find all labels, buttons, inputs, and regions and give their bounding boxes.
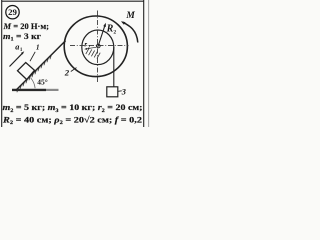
svg-text:a: a — [15, 42, 19, 51]
incline hatching — [17, 55, 52, 93]
rope to block 3 — [113, 47, 115, 87]
torque arc M — [123, 22, 138, 42]
svg-text:3: 3 — [121, 88, 126, 97]
svg-text:29: 29 — [8, 8, 17, 17]
radius arrow R2 — [98, 24, 105, 45]
acceleration arrow a1 — [10, 53, 24, 67]
svg-text:m2 = 5 кг; m3 = 10 кг; r2 = 20: m2 = 5 кг; m3 = 10 кг; r2 = 20 см; — [3, 102, 143, 114]
top border line — [2, 0, 144, 2]
block 1 on incline (rotated square) — [18, 63, 35, 80]
svg-text:45°: 45° — [37, 78, 48, 87]
axle pivot circle — [97, 44, 101, 48]
vertical centerline dash-dot — [97, 11, 99, 83]
problem number circle 29 — [6, 6, 19, 19]
ground line faded right part — [46, 89, 59, 91]
pulley inner circle r2 — [82, 30, 114, 65]
svg-text:1: 1 — [36, 43, 40, 52]
svg-text:m1 = 3 кг: m1 = 3 кг — [3, 31, 41, 43]
ground line — [12, 89, 46, 91]
horizontal centerline dash-dot — [70, 44, 129, 46]
pulley outer circle R2 — [64, 16, 127, 77]
block 3 hanging — [107, 87, 118, 97]
pivot support hatching — [86, 48, 100, 58]
svg-text:R2 = 40 см; ρ2 = 20√2 см; f =: R2 = 40 см; ρ2 = 20√2 см; f = 0,2 — [2, 114, 142, 126]
label 3 with leader — [118, 90, 122, 93]
left border line — [1, 0, 3, 127]
svg-text:M = 20 Н·м;: M = 20 Н·м; — [3, 21, 50, 31]
45 degree angle arc — [31, 78, 35, 88]
svg-text:2: 2 — [113, 29, 116, 35]
svg-text:R: R — [106, 24, 114, 35]
label 2 with leader — [71, 68, 77, 72]
svg-text:M: M — [125, 11, 135, 21]
page edge line far right — [148, 0, 150, 127]
label 1 with leader — [30, 52, 35, 61]
incline surface / rope line at 45 deg — [16, 41, 66, 91]
paper background — [0, 0, 150, 127]
right border line — [143, 0, 145, 127]
svg-text:2: 2 — [64, 68, 70, 78]
radius arrow r2 — [86, 47, 96, 49]
